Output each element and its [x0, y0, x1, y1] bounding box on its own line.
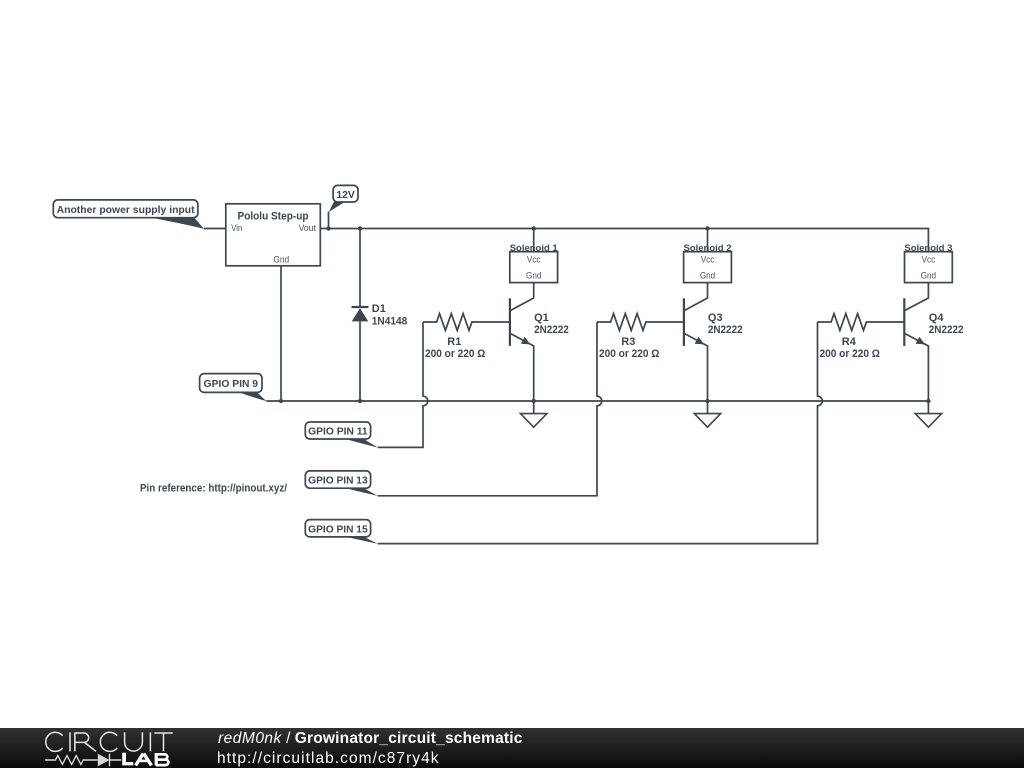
svg-text:Solenoid 1: Solenoid 1: [510, 243, 559, 254]
svg-text:2N2222: 2N2222: [708, 324, 743, 336]
svg-text:Vout: Vout: [299, 223, 317, 233]
svg-text:12V: 12V: [336, 189, 355, 201]
svg-text:2N2222: 2N2222: [929, 324, 964, 336]
svg-text:Q3: Q3: [708, 312, 723, 324]
svg-text:GPIO PIN 13: GPIO PIN 13: [308, 475, 368, 487]
svg-text:Gnd: Gnd: [273, 255, 289, 265]
svg-text:Gnd: Gnd: [921, 271, 936, 281]
svg-text:Pin reference: http://pinout.x: Pin reference: http://pinout.xyz/: [140, 482, 287, 494]
svg-text:Solenoid 2: Solenoid 2: [684, 243, 732, 254]
svg-text:GPIO PIN 15: GPIO PIN 15: [308, 524, 368, 536]
svg-text:Another power supply input: Another power supply input: [57, 204, 195, 216]
svg-text:200 or 220 Ω: 200 or 220 Ω: [599, 348, 660, 360]
svg-text:2N2222: 2N2222: [534, 324, 569, 336]
svg-text:Vcc: Vcc: [922, 254, 936, 264]
svg-text:GPIO PIN 9: GPIO PIN 9: [204, 378, 259, 390]
svg-text:R1: R1: [447, 336, 461, 348]
svg-text:GPIO PIN 11: GPIO PIN 11: [308, 426, 368, 438]
svg-text:Q4: Q4: [929, 312, 945, 324]
svg-text:Vin: Vin: [231, 223, 242, 233]
svg-text:1N4148: 1N4148: [372, 316, 408, 328]
svg-text:Solenoid 3: Solenoid 3: [904, 243, 952, 254]
svg-text:Vcc: Vcc: [527, 254, 541, 264]
svg-text:Gnd: Gnd: [526, 271, 541, 281]
svg-text:Pololu Step-up: Pololu Step-up: [238, 211, 309, 223]
svg-text:200 or 220 Ω: 200 or 220 Ω: [819, 348, 880, 360]
svg-text:Gnd: Gnd: [700, 271, 715, 281]
svg-text:200 or 220 Ω: 200 or 220 Ω: [425, 348, 486, 360]
svg-text:R4: R4: [842, 336, 857, 348]
svg-text:Q1: Q1: [534, 312, 549, 324]
svg-text:D1: D1: [372, 303, 386, 315]
svg-text:Vcc: Vcc: [701, 254, 715, 264]
svg-text:R3: R3: [621, 336, 635, 348]
